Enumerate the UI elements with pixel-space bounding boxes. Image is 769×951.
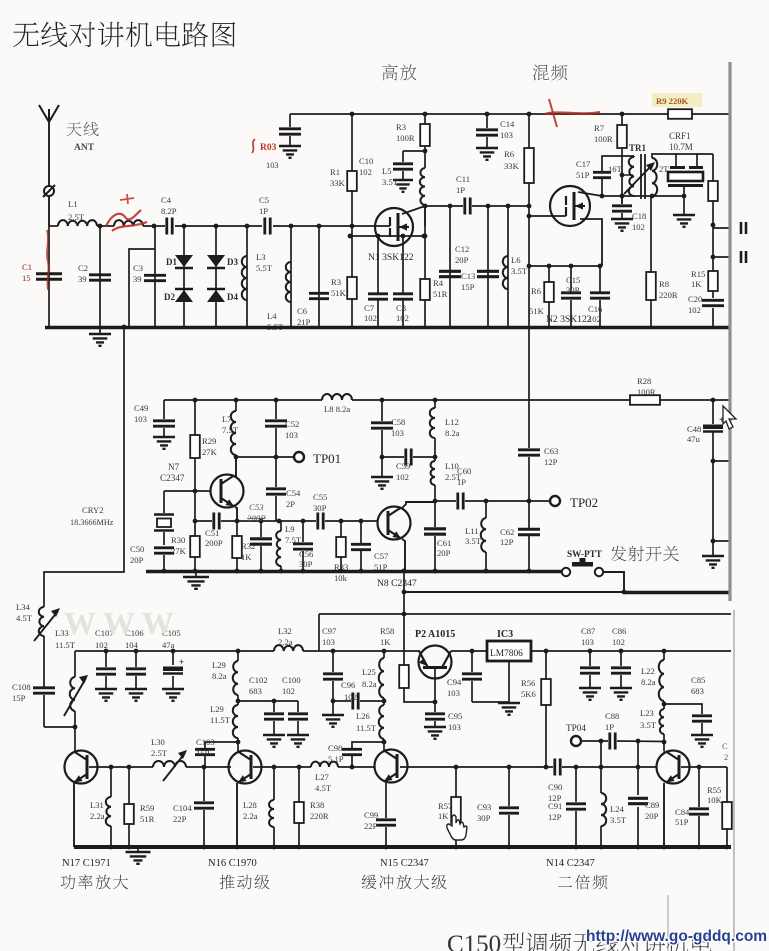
junction: [104, 649, 109, 654]
svg-text:C48: C48: [687, 424, 701, 434]
svg-text:102: 102: [282, 686, 295, 696]
svg-text:C63: C63: [544, 446, 558, 456]
svg-text:102: 102: [95, 640, 108, 650]
svg-text:L24: L24: [610, 804, 625, 814]
bottom ground bus: [74, 845, 731, 850]
ground under CRF1: [673, 196, 695, 227]
capacitor C53: [247, 502, 272, 571]
junction: [245, 224, 250, 229]
resistor R30: [171, 535, 200, 571]
svg-text:C3: C3: [133, 263, 143, 273]
wire N14 emitter: [663, 783, 665, 847]
junction: [382, 649, 387, 654]
wire R58 column: [402, 569, 407, 665]
svg-text:12P: 12P: [544, 457, 558, 467]
capacitor C14: [476, 114, 515, 160]
ground on bottom bus: [126, 849, 151, 864]
diode D1: [166, 226, 193, 327]
svg-text:4.5T: 4.5T: [16, 613, 33, 623]
svg-text:C102: C102: [249, 675, 268, 685]
capacitor C9 103 decoupling: [266, 114, 301, 170]
wire TX feed line y=613: [319, 612, 731, 651]
svg-text:L3: L3: [256, 252, 266, 262]
capacitor C10: [359, 151, 425, 192]
antenna ANT: [39, 105, 59, 226]
svg-text:C100: C100: [282, 675, 301, 685]
resistor R59: [124, 767, 154, 847]
capacitor C48 47u: [687, 398, 731, 556]
svg-text:2.2a: 2.2a: [243, 811, 258, 821]
svg-text:10k: 10k: [334, 573, 348, 583]
svg-text:51K: 51K: [331, 288, 347, 298]
svg-text:N16 C1970: N16 C1970: [208, 858, 257, 869]
svg-text:C93: C93: [477, 802, 491, 812]
capacitor C55: [313, 492, 327, 530]
svg-text:10.7M: 10.7M: [669, 142, 693, 152]
svg-text:L29: L29: [210, 704, 224, 714]
svg-text:C94: C94: [447, 677, 462, 687]
svg-text:15P: 15P: [12, 693, 26, 703]
wire N17 emitter to ground: [73, 783, 75, 847]
capacitor C5: [259, 195, 270, 235]
transistor N14 C2347 doubler: [657, 742, 690, 784]
svg-text:L27: L27: [315, 772, 330, 782]
capacitor C11: [456, 174, 470, 215]
svg-text:C57: C57: [374, 551, 389, 561]
junction: [527, 112, 532, 117]
resistor R29: [190, 400, 217, 536]
svg-text:103: 103: [134, 414, 147, 424]
capacitor C102: [249, 675, 285, 747]
capacitor C100: [282, 675, 309, 747]
svg-text:C51: C51: [205, 528, 219, 538]
inductor L32: [274, 626, 303, 651]
svg-text:102: 102: [396, 313, 409, 323]
wire N16 emitter: [236, 783, 238, 847]
svg-text:W W W: W W W: [64, 605, 174, 641]
svg-text:N17 C1971: N17 C1971: [62, 858, 111, 869]
svg-text:C95: C95: [448, 711, 462, 721]
capacitor C107: [95, 628, 117, 701]
transistor N1 3SK122: [368, 208, 414, 263]
wire N8 emitter: [402, 539, 405, 571]
inductor L31: [90, 767, 111, 847]
svg-text:N15 C2347: N15 C2347: [380, 858, 429, 869]
svg-text:1K: 1K: [691, 279, 702, 289]
junction: [182, 224, 187, 229]
svg-text:L25: L25: [362, 667, 376, 677]
svg-text:4.5T: 4.5T: [315, 783, 332, 793]
svg-text:L1: L1: [68, 199, 78, 209]
scan border thin bottom mid: [667, 895, 669, 951]
svg-text:103: 103: [391, 428, 404, 438]
svg-text:R9 220K: R9 220K: [656, 96, 689, 106]
capacitor C13: [461, 204, 499, 327]
svg-text:18.3666MHz: 18.3666MHz: [70, 518, 114, 527]
junction: [619, 649, 624, 654]
svg-text:IC3: IC3: [497, 629, 513, 640]
svg-text:C: C: [722, 742, 728, 751]
svg-text:L31: L31: [90, 800, 104, 810]
junction: [433, 398, 438, 403]
resistor R4: [420, 206, 447, 327]
variable inductor L30: [151, 737, 231, 781]
svg-text:C85: C85: [691, 675, 705, 685]
junction: [214, 224, 219, 229]
svg-text:5.5T: 5.5T: [256, 263, 273, 273]
test point TP04: [566, 723, 586, 746]
svg-text:22P: 22P: [173, 814, 187, 824]
wire N2 source: [580, 219, 602, 266]
svg-text:103: 103: [448, 722, 461, 732]
svg-text:N8 C2347: N8 C2347: [377, 578, 417, 589]
svg-text:C20: C20: [688, 294, 702, 304]
svg-text:R58: R58: [380, 626, 394, 636]
capacitor C84: [675, 767, 709, 847]
diode D3: [207, 226, 238, 327]
svg-text:39: 39: [133, 274, 142, 284]
svg-text:N14 C2347: N14 C2347: [546, 858, 595, 869]
svg-text:L6: L6: [511, 255, 521, 265]
svg-text:103: 103: [581, 637, 594, 647]
wire N2 drain: [578, 192, 602, 196]
ground on osc bus: [183, 573, 209, 589]
resistor R57: [438, 767, 461, 847]
svg-text:P2 A1015: P2 A1015: [415, 629, 455, 640]
wire N8 collector: [401, 502, 435, 509]
svg-text:30P: 30P: [299, 559, 313, 569]
svg-text:http://www.go-gddq.com: http://www.go-gddq.com: [586, 928, 767, 945]
svg-text:103: 103: [447, 688, 460, 698]
svg-text:220R: 220R: [310, 811, 329, 821]
svg-text:C6: C6: [297, 306, 308, 316]
svg-text:L23: L23: [640, 708, 654, 718]
red ink mark near C1: [47, 230, 49, 290]
svg-text:R6: R6: [504, 149, 515, 159]
variable arrow L34: [16, 602, 60, 641]
junction: [317, 224, 322, 229]
svg-text:103: 103: [285, 430, 298, 440]
svg-text:11.5T: 11.5T: [356, 723, 377, 733]
wire N7 emitter: [235, 507, 237, 521]
svg-text:R8: R8: [659, 279, 669, 289]
svg-text:C12: C12: [455, 244, 469, 254]
svg-text:C96: C96: [341, 680, 356, 690]
svg-text:R55: R55: [707, 785, 721, 795]
crystal CRY2 18.3666MHz: [70, 491, 174, 545]
antenna connector J1: [43, 185, 55, 197]
svg-text:C99: C99: [364, 810, 378, 820]
svg-text:TP04: TP04: [566, 723, 586, 733]
resistor R32: [232, 521, 255, 571]
svg-text:L32: L32: [278, 626, 292, 636]
transistor N2 3SK122: [546, 186, 592, 325]
capacitor C60: [457, 466, 471, 510]
junction: [234, 398, 239, 403]
ceramic filter CRF1 10.7M: [652, 131, 713, 196]
svg-text:103: 103: [500, 130, 513, 140]
capacitor C90: [548, 759, 562, 804]
svg-text:C15: C15: [566, 275, 580, 285]
junction: [662, 649, 667, 654]
red ink label R03: [252, 139, 277, 153]
capacitor C63: [518, 327, 558, 501]
svg-text:51P: 51P: [576, 170, 590, 180]
transformer TR1: [608, 143, 669, 199]
inductor L22: [641, 651, 666, 706]
junction: [423, 204, 428, 209]
svg-text:8.2a: 8.2a: [362, 679, 377, 689]
wire stub near C3: [129, 249, 155, 327]
capacitor C85: [664, 675, 713, 747]
svg-text:20P: 20P: [455, 255, 469, 265]
junction: [485, 112, 490, 117]
wire P2 base: [433, 668, 438, 704]
svg-text:33K: 33K: [504, 161, 520, 171]
capacitor C17: [576, 156, 634, 198]
svg-text:C50: C50: [130, 544, 144, 554]
svg-text:103: 103: [322, 637, 335, 647]
capacitor C7: [364, 234, 388, 327]
svg-text:30P: 30P: [566, 285, 580, 295]
svg-text:C2347: C2347: [160, 473, 185, 483]
svg-text:R15: R15: [691, 269, 705, 279]
junction: [544, 649, 549, 654]
wire PA base row: [89, 765, 153, 770]
svg-text:30P: 30P: [477, 813, 491, 823]
title 无线对讲机电路图: [13, 22, 235, 48]
wire C102/C100 row: [238, 699, 298, 704]
resistor R55: [707, 767, 732, 847]
svg-text:N2 3SK122: N2 3SK122: [546, 314, 592, 325]
capacitor C8: [393, 234, 413, 327]
svg-text:L29: L29: [212, 660, 226, 670]
svg-text:CRY2: CRY2: [82, 505, 104, 515]
junction: [350, 112, 355, 117]
wire 2T bottom: [634, 194, 686, 199]
transistor N17 C1971 power amp: [65, 727, 98, 784]
capacitor C52: [265, 400, 299, 457]
svg-text:C10: C10: [359, 156, 373, 166]
inductor L9: [276, 521, 302, 571]
resistor R6 33K: [504, 114, 534, 216]
wire TP04 row: [581, 739, 664, 744]
svg-text:L30: L30: [151, 737, 165, 747]
svg-text:3.5T: 3.5T: [640, 720, 657, 730]
capacitor C105 electrolytic: [162, 628, 184, 701]
capacitor C56: [293, 521, 314, 571]
red ink mark on rail: [545, 99, 600, 127]
inductor L28: [243, 767, 274, 847]
wire bottom supply rail y=651: [75, 651, 731, 727]
capacitor C106: [125, 628, 147, 701]
svg-text:22P: 22P: [364, 821, 378, 831]
capacitor C1: [22, 226, 62, 327]
junction: [236, 649, 241, 654]
capacitor C104: [173, 767, 214, 847]
svg-text:C86: C86: [612, 626, 627, 636]
capacitor C89: [628, 741, 659, 847]
svg-text:C56: C56: [299, 549, 314, 559]
svg-text:2.5T: 2.5T: [151, 748, 168, 758]
resistor R3: [396, 114, 430, 168]
svg-text:2.2a: 2.2a: [278, 637, 293, 647]
svg-text:C14: C14: [500, 119, 515, 129]
svg-text:L22: L22: [641, 666, 655, 676]
svg-text:1P: 1P: [457, 477, 466, 487]
wire TX bus y=592: [402, 590, 731, 595]
wire IF output stubs: [711, 222, 746, 263]
junction: [423, 112, 428, 117]
svg-text:L12: L12: [445, 417, 459, 427]
svg-text:R28: R28: [637, 376, 651, 386]
svg-text:51R: 51R: [140, 814, 155, 824]
svg-text:C16: C16: [588, 304, 603, 314]
inductor L29 11.5T: [210, 699, 240, 742]
wire N7 base row: [164, 489, 211, 494]
junction: [152, 224, 157, 229]
scan border right grey: [728, 62, 731, 601]
capacitor C99: [364, 781, 396, 847]
svg-text:102: 102: [612, 637, 625, 647]
inductor L1: [58, 199, 97, 226]
svg-text:27K: 27K: [202, 447, 218, 457]
svg-text:20P: 20P: [645, 811, 659, 821]
svg-text:220R: 220R: [659, 290, 678, 300]
svg-text:1K: 1K: [380, 637, 391, 647]
wire emitter row y=521: [193, 519, 377, 524]
top ground bus: [45, 326, 731, 330]
svg-text:3.5T: 3.5T: [610, 815, 627, 825]
capacitor C6: [297, 226, 329, 327]
capacitor C59: [396, 449, 411, 483]
wire TP01 row: [234, 455, 294, 460]
svg-text:C84: C84: [675, 807, 690, 817]
svg-text:C55: C55: [313, 492, 327, 502]
capacitor C97: [322, 626, 344, 727]
section label 混频: [533, 65, 568, 81]
svg-text:C54: C54: [286, 488, 301, 498]
test point TP02: [550, 495, 598, 510]
svg-text:102: 102: [688, 305, 701, 315]
svg-text:TP02: TP02: [570, 495, 598, 510]
wire N2 source row: [527, 264, 603, 269]
svg-text:L9: L9: [285, 524, 295, 534]
junction: [193, 398, 198, 403]
test point TP01: [294, 451, 341, 466]
svg-text:3.5T: 3.5T: [382, 177, 399, 187]
svg-text:R29: R29: [202, 436, 216, 446]
wire N1 source row: [348, 234, 427, 239]
svg-text:C87: C87: [581, 626, 596, 636]
svg-text:8.2a: 8.2a: [641, 677, 656, 687]
svg-text:12P: 12P: [548, 812, 562, 822]
junction: [274, 398, 279, 403]
resistor R56: [521, 651, 551, 767]
capacitor C4: [161, 195, 177, 235]
resistor R15: [691, 257, 718, 298]
svg-text:R59: R59: [140, 803, 154, 813]
svg-text:2.2a: 2.2a: [90, 811, 105, 821]
capacitor C15: [561, 266, 581, 327]
resistor R38: [294, 767, 329, 847]
svg-text:3.5T: 3.5T: [465, 536, 482, 546]
capacitor C54: [266, 457, 301, 521]
svg-text:15: 15: [22, 273, 31, 283]
svg-text:20P: 20P: [130, 555, 144, 565]
svg-text:R3: R3: [331, 277, 341, 287]
capacitor C93: [477, 767, 519, 847]
svg-text:102: 102: [344, 692, 357, 702]
switch SW-PTT: [562, 549, 603, 576]
svg-text:12P: 12P: [500, 537, 514, 547]
svg-text:C7: C7: [364, 303, 375, 313]
wire TP02 row: [433, 499, 550, 504]
svg-text:R57: R57: [438, 801, 453, 811]
svg-text:30P: 30P: [313, 503, 327, 513]
inductor L11: [465, 501, 486, 571]
svg-text:C2: C2: [78, 263, 88, 273]
resistor R1: [330, 114, 357, 226]
svg-text:8.2P: 8.2P: [161, 206, 177, 216]
label 天线 ANT: [67, 122, 99, 153]
transistor N7 C2347: [160, 462, 244, 508]
junction: [380, 398, 385, 403]
capacitor C58: [371, 400, 405, 457]
svg-text:L4: L4: [267, 311, 277, 321]
wire N7 collector: [234, 457, 236, 477]
svg-text:CRF1: CRF1: [669, 131, 691, 141]
wire main RF line: [49, 225, 390, 227]
svg-text:104: 104: [125, 640, 139, 650]
svg-text:1K: 1K: [241, 552, 252, 562]
svg-text:D1: D1: [166, 257, 177, 267]
variable inductor L33: [55, 628, 88, 716]
svg-text:102: 102: [588, 314, 601, 324]
junction: [98, 224, 103, 229]
capacitor C94: [447, 651, 509, 702]
svg-text:103: 103: [266, 161, 279, 170]
inductor L3: [242, 226, 273, 327]
diode D4: [207, 289, 238, 302]
svg-text:11.5T: 11.5T: [210, 715, 231, 725]
ground stub on bus: [89, 329, 111, 346]
svg-text:C89: C89: [645, 800, 659, 810]
resistor R8: [646, 196, 678, 327]
svg-text:C98: C98: [328, 743, 342, 753]
svg-text:L11: L11: [465, 526, 479, 536]
junction: [620, 112, 625, 117]
inductor L23: [640, 704, 666, 744]
svg-text:102: 102: [632, 222, 645, 232]
svg-text:33K: 33K: [330, 178, 346, 188]
svg-text:R03: R03: [260, 143, 277, 153]
inductor L6: [503, 204, 528, 327]
svg-text:47u: 47u: [687, 434, 701, 444]
resistor R33: [334, 521, 348, 583]
capacitor C3: [133, 226, 166, 327]
capacitor C20: [688, 294, 724, 327]
capacitor C108: [12, 682, 55, 727]
capacitor C2: [78, 226, 111, 327]
resistor R7: [594, 114, 627, 204]
svg-text:TR1: TR1: [629, 143, 647, 153]
stage label 缓冲放大级: [362, 875, 447, 890]
svg-text:C18: C18: [632, 211, 646, 221]
svg-text:C1: C1: [22, 262, 32, 272]
svg-text:15P: 15P: [461, 282, 475, 292]
svg-text:51R: 51R: [433, 289, 448, 299]
